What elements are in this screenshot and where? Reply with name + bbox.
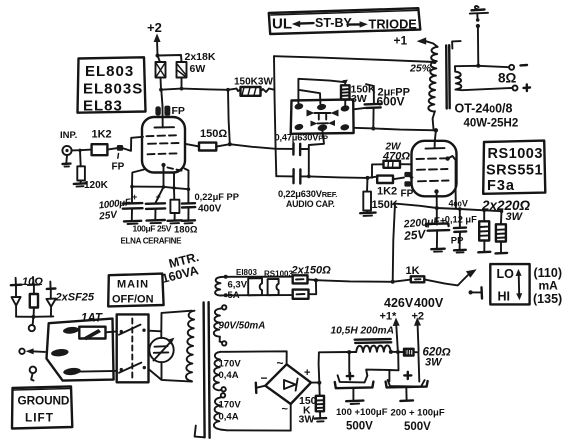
svg-text:ELNA CERAFINE: ELNA CERAFINE [121, 237, 183, 246]
svg-text:EL803: EL803 [85, 63, 134, 80]
wire RC bus [130, 185, 190, 191]
svg-text:0,22μF PP: 0,22μF PP [195, 192, 239, 202]
svg-text:0,4A: 0,4A [219, 370, 239, 381]
wire plate node to cap rail [230, 144, 276, 149]
meter switch lower contact [469, 287, 483, 298]
choke 10,5H 200mA [331, 326, 405, 354]
svg-text:426V: 426V [384, 296, 414, 310]
svg-text:OT-2400/8: OT-2400/8 [455, 102, 513, 116]
diode D1 (SF25) [11, 278, 22, 317]
capacitor 2200uF 25V [402, 208, 449, 252]
IEC pins [51, 326, 81, 376]
resistor 470R 2W [372, 142, 412, 178]
svg-text:AUDIO CAP.: AUDIO CAP. [286, 199, 335, 209]
ferrite bead FP (input) [112, 145, 125, 173]
chassis ground top [470, 6, 488, 66]
label box EL803 EL803S EL83 [78, 57, 146, 114]
resistor 150R plate load [199, 128, 232, 151]
svg-text:40W-25H2: 40W-25H2 [464, 118, 519, 130]
svg-text:10,5H 200mA: 10,5H 200mA [331, 326, 394, 337]
tube V2 envelope [412, 141, 457, 197]
svg-text:+: + [304, 367, 310, 379]
label 400V [449, 199, 468, 209]
svg-text:HI: HI [498, 290, 511, 304]
node +1 arrow to OT top [394, 34, 438, 48]
tube V2 cathode [434, 189, 438, 208]
resistor 1K2 grid stopper tube2 [377, 176, 404, 198]
node +2 supply arrow [147, 20, 162, 58]
svg-text:OFF/ON: OFF/ON [112, 294, 154, 306]
wire V1 plate out to 150R [185, 144, 199, 147]
wire bridge + to filter [311, 350, 351, 385]
tube V2 plate [426, 130, 445, 148]
svg-text:SRS551: SRS551 [486, 163, 543, 179]
wire pin to cap bottom plate [354, 108, 367, 110]
resistor 1K2 grid stopper [92, 129, 117, 156]
IEC inlet shell [47, 319, 114, 381]
svg-text:+2: +2 [147, 20, 162, 35]
svg-text:1K2: 1K2 [377, 186, 397, 198]
svg-text:2x18K: 2x18K [185, 51, 216, 63]
svg-text:100 +100μF: 100 +100μF [336, 407, 388, 418]
svg-text:0,22μ630VREF.: 0,22μ630VREF. [278, 189, 337, 199]
MTR heater winding 6,3V 5A [215, 275, 248, 301]
wire choke node to cap2 [366, 353, 398, 382]
label box MAIN OFF/ON [108, 274, 163, 307]
capacitor 100+100uF 500V [335, 352, 388, 432]
wire top node to R1b [158, 55, 182, 62]
capacitor 100uF 25V [146, 187, 165, 223]
svg-text:25%: 25% [409, 63, 432, 75]
tube V1 grid dashes [147, 135, 179, 154]
svg-text:100μF 25V: 100μF 25V [133, 224, 172, 234]
socket box U1 [291, 99, 354, 133]
wire UL tap run [274, 56, 437, 64]
MTR core [195, 302, 210, 438]
svg-text:1AT: 1AT [81, 313, 103, 325]
OT core [446, 41, 460, 108]
svg-text:El803: El803 [236, 268, 257, 277]
fuse 1AT [79, 313, 116, 341]
capacitor 0,22uF PP bypass [182, 189, 239, 223]
svg-text:F3a: F3a [487, 178, 515, 194]
capacitor 0,22u 630V audio [276, 169, 337, 209]
wires switch to lamp and MTR primary [149, 311, 193, 382]
svg-text:600V: 600V [377, 95, 405, 109]
svg-text:180Ω: 180Ω [174, 225, 198, 236]
svg-text:170V: 170V [219, 359, 242, 370]
svg-text:3W: 3W [425, 357, 443, 369]
capacitor 2uF PP 600V [365, 84, 410, 128]
svg-text:~: ~ [277, 356, 284, 370]
heater V1 symbol EL803 [236, 268, 262, 295]
svg-text:−: − [261, 371, 268, 385]
wire bottom pin to switch [81, 370, 117, 373]
lamp / indicator [149, 338, 174, 363]
label 100uF 25V 180R row [133, 224, 198, 236]
wire AC to bridge [227, 351, 291, 430]
wire vertical screen node x=274 [274, 56, 276, 176]
svg-text:3W: 3W [506, 211, 524, 223]
wire socket bottom pin to coupling caps [309, 131, 324, 177]
resistor 180R cathode [168, 188, 182, 224]
svg-text:~: ~ [282, 404, 289, 416]
svg-text:mA: mA [539, 279, 559, 293]
diode D2 (SF25) [46, 282, 95, 317]
svg-text:MAIN: MAIN [117, 279, 149, 291]
resistor R 18K (a) [156, 62, 166, 90]
svg-text:2xSF25: 2xSF25 [55, 292, 95, 304]
socket pins (filled) [294, 102, 350, 131]
svg-text:(135): (135) [533, 292, 562, 306]
svg-text:90V/50mA: 90V/50mA [219, 321, 266, 332]
svg-text:500V: 500V [404, 421, 431, 433]
tube V1 plate bar [155, 126, 175, 128]
input jack INP [60, 130, 77, 167]
svg-text:500V: 500V [346, 421, 373, 433]
svg-text:LO: LO [497, 267, 515, 281]
MTR winding 90V/50mA [214, 305, 266, 345]
svg-text:0,47μ630VPP: 0,47μ630VPP [275, 133, 329, 143]
resistor 150K3W screen feed [237, 87, 275, 96]
svg-text:+1: +1 [394, 34, 408, 48]
switch label box UL/ST-BY/TRIODE [269, 8, 421, 34]
svg-text:UL: UL [272, 16, 292, 33]
label 2x18K 6W [185, 51, 216, 75]
tube V1 envelope [142, 117, 185, 173]
svg-text:FP: FP [172, 105, 185, 117]
wire jack to grid [72, 149, 92, 152]
svg-text:EL83: EL83 [83, 98, 123, 115]
ferrite beads FP on plate lead [155, 105, 185, 117]
wire B+ bus y=89 [159, 87, 236, 92]
wire heater rail to 1K [316, 280, 411, 284]
svg-text:150Ω: 150Ω [200, 128, 227, 140]
svg-text:400V: 400V [198, 204, 222, 215]
speaker terminals 8R [498, 65, 530, 91]
label OT-2400/8 40W-25H2 [455, 102, 519, 130]
resistor 10R [28, 277, 40, 317]
resistor 120K [74, 150, 109, 191]
OT secondary coil [455, 64, 513, 90]
svg-text:0,4A: 0,4A [219, 412, 239, 423]
svg-text:400V: 400V [414, 296, 444, 310]
svg-text:+: + [156, 192, 161, 202]
MTR winding 170V 0,4A (2) [214, 393, 241, 430]
ground lift lower terminal [30, 367, 37, 381]
svg-text:GROUND: GROUND [18, 394, 70, 408]
bridge rectifier [256, 356, 311, 416]
resistor 150K 3W screen [341, 84, 376, 107]
svg-text:1K2: 1K2 [92, 129, 112, 141]
wire to tube1 grid [123, 137, 143, 151]
tube V1 cathode [161, 163, 165, 173]
svg-text:3W: 3W [351, 93, 367, 105]
svg-text:400V: 400V [449, 199, 468, 209]
heater wires [226, 277, 291, 296]
svg-text:200 + 100μF: 200 + 100μF [391, 408, 445, 419]
svg-text:+: + [132, 192, 137, 202]
label box RS1003 SRS551 F3a [483, 141, 545, 194]
svg-text:8Ω: 8Ω [498, 71, 517, 86]
switch box MAIN [117, 314, 149, 382]
label box LO/HI meter [490, 264, 529, 304]
svg-text:170V: 170V [219, 400, 242, 411]
tube V2 screen tap and edge wire [445, 156, 456, 209]
svg-text:LIFT: LIFT [25, 411, 54, 425]
svg-text:RS1003: RS1003 [264, 270, 293, 279]
resistors 2x220R 3W [478, 198, 530, 253]
svg-text:0,12μF: 0,12μF [445, 215, 477, 225]
svg-text:ST-BY: ST-BY [315, 16, 352, 30]
svg-text:EL803S: EL803S [83, 81, 143, 98]
socket key marks [307, 110, 339, 127]
wire ground-lift junction [16, 315, 53, 332]
svg-text:3W: 3W [299, 414, 315, 426]
resistor 150K 3W bleeder [299, 383, 327, 426]
wire node down to coupling [228, 90, 230, 144]
wires tube1 bottom to RC bus [132, 169, 189, 190]
switch contacts [119, 325, 146, 373]
svg-text:INP.: INP. [60, 130, 77, 141]
ground lift terminal and arrow [19, 348, 45, 354]
svg-text:150K3W: 150K3W [234, 77, 273, 88]
svg-text:FP: FP [112, 162, 125, 173]
arrows 426V +1* / 400V +2 [380, 296, 444, 354]
label box GROUND LIFT [12, 386, 72, 428]
resistor 1K meter [406, 265, 477, 285]
resistors 2x150R heater [291, 265, 332, 299]
svg-text:+1*: +1* [380, 311, 398, 323]
label ELNA CERAFINE [121, 237, 183, 246]
ferrite beads FP tube2 [401, 172, 414, 200]
label 150K3W [234, 77, 273, 88]
capacitor 0,47u 630V PP [275, 133, 329, 156]
wire socket to plate node (y=129) [354, 127, 438, 133]
svg-text:25V: 25V [98, 209, 119, 222]
resistor 620R 3W [404, 347, 451, 382]
tube V1 bottom dashed arc [168, 168, 182, 171]
label MTR 160VA [160, 250, 200, 286]
label (110) mA (135) [533, 266, 562, 306]
svg-text:TRIODE: TRIODE [369, 17, 418, 32]
label 10R [22, 276, 43, 288]
wire bus down to heater rail [393, 204, 395, 282]
resistor 150K grid leak [360, 178, 398, 216]
svg-text:RS1003: RS1003 [488, 146, 543, 162]
capacitor 0,12uF PP [445, 209, 477, 253]
svg-text:120K: 120K [84, 180, 109, 191]
MTR winding 170V 0,4A (1) [213, 352, 241, 392]
transformer MTR primary coil [186, 311, 194, 381]
tube V2 grid dashes [417, 158, 449, 181]
svg-text:6,3V: 6,3V [228, 280, 248, 291]
resistor R 18K (b) [177, 62, 187, 89]
wire cathode bus [395, 204, 503, 213]
svg-text:6W: 6W [190, 63, 206, 75]
wire grid run to tube2 [309, 176, 377, 180]
svg-text:PP: PP [451, 236, 464, 247]
transformer OT primary coil [428, 47, 437, 131]
svg-text:25V: 25V [403, 227, 427, 243]
wire screen node to socket pins [298, 79, 347, 104]
capacitor 200+100uF 500V [386, 372, 445, 433]
heater V2 symbol RS1003 [264, 270, 293, 296]
wire plate drop tube1 [161, 90, 162, 127]
label 25% tap [409, 63, 432, 75]
svg-text:FP: FP [401, 189, 414, 200]
capacitor 1000uF 25V [98, 187, 143, 224]
